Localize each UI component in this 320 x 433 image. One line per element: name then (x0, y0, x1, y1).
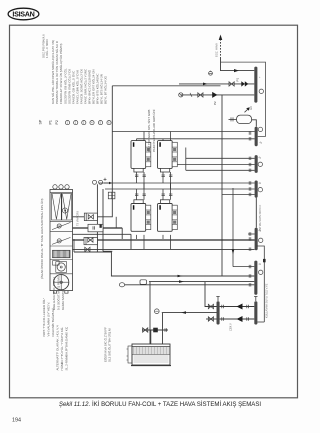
svg-text:VIH.VALMNA .BY"HİZI V.: VIH.VALMNA .BY"HİZI V. (46, 302, 51, 337)
svg-text:KLİMA SANTR.: KLİMA SANTR. (60, 289, 65, 310)
svg-text:P1: P1 (49, 120, 53, 124)
svg-text:(İSLAK İPODO PAK AL "B" TAZE H: (İSLAK İPODO PAK AL "B" TAZE HAVA SANTRA… (39, 199, 44, 280)
svg-text:SL2 SIĞ.ĞLIT"BA Ü'İŞ.M: SL2 SIĞ.ĞLIT"BA Ü'İŞ.M (106, 328, 111, 362)
svg-text:İSITMA SUYU 90/70 C: İSITMA SUYU 90/70 C (257, 205, 262, 231)
svg-text:HÜMİD.Y"TÜYÜL "YÜKP"A KĞ.: HÜMİD.Y"TÜYÜL "YÜKP"A KĞ. (59, 327, 64, 371)
svg-text:4c: 4c (259, 263, 262, 266)
svg-text:NOT: "HK.CO.LLERER ÖİL": NOT: "HK.CO.LLERER ÖİL" (41, 298, 46, 337)
svg-text:DALKNİS TEĞ28.Gİ: DALKNİS TEĞ28.Gİ (50, 308, 55, 336)
svg-text:5-2 SOĞUT.M A Ş RUMU: 5-2 SOĞUT.M A Ş RUMU (56, 276, 61, 310)
svg-text:EGE HAVA SIZD. F'ANLI: EGE HAVA SIZD. F'ANLI (52, 277, 56, 310)
svg-text:TS VNA GRB: TS VNA GRB (77, 211, 80, 226)
svg-text:PAKCİTE CİHAZLARI GRB ÜNİ: PAKCİTE CİHAZLARI GRB ÜNİ (151, 109, 156, 152)
svg-text:P2: P2 (213, 101, 217, 105)
svg-text:4c: 4c (259, 157, 262, 160)
svg-text:KULLANMA SUYU T.EŞ V.YE: KULLANMA SUYU T.EŞ V.YE (265, 283, 269, 318)
svg-text:ALTERNAT"F OLARAK .HÜL V.4: ALTERNAT"F OLARAK .HÜL V.4 (55, 325, 59, 370)
svg-text:194: 194 (12, 418, 21, 424)
svg-text:P2: P2 (55, 120, 59, 124)
svg-text:ÇEK V: ÇEK V (229, 323, 233, 331)
svg-text:SP: SP (39, 119, 43, 124)
svg-text:4c: 4c (260, 142, 263, 145)
svg-text:POMPASI TORKLU İKİ YÖN VANASI: POMPASI TORKLU İKİ YÖN VANASI SĞ.SU D (54, 40, 59, 104)
svg-text:ISISAN: ISISAN (12, 9, 34, 18)
svg-text:GD: GD (250, 106, 253, 110)
svg-text:EGZ. HAVA: EGZ. HAVA (215, 43, 219, 57)
svg-text:+: + (259, 76, 261, 79)
svg-text:FREKOLET Rİ.W.A ÜN ŞNĞLA(YÜK P: FREKOLET Rİ.W.A ÜN ŞNĞLA(YÜK PĞM'N) (58, 43, 63, 104)
svg-text:1 KĞ...F 600X: 1 KĞ...F 600X (44, 39, 49, 58)
svg-text:BOYL BT KĞL34 ÜG: BOYL BT KĞL34 ÜG (103, 75, 108, 104)
svg-text:CİLT TOP GENİ KPL SİST GRB: CİLT TOP GENİ KPL SİST GRB (146, 110, 151, 152)
svg-text:4c: 4c (259, 182, 262, 185)
svg-text:SL.2-RNMBA.İP"BAİ.GAMS KÇ: SL.2-RNMBA.İP"BAİ.GAMS KÇ (63, 326, 68, 370)
svg-text:Şekil 11.12. İKİ BORULU FAN-CO: Şekil 11.12. İKİ BORULU FAN-COIL + TAZE … (59, 401, 262, 408)
svg-text:P1: P1 (236, 77, 240, 81)
